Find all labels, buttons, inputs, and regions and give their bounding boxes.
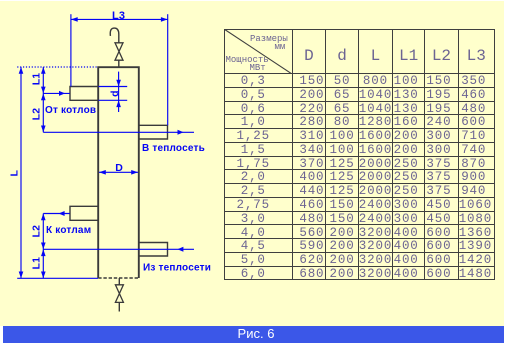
svg-text:d: d	[109, 90, 121, 97]
svg-text:В теплосеть: В теплосеть	[142, 143, 205, 154]
svg-text:От котлов: От котлов	[45, 105, 96, 116]
svg-text:L3: L3	[112, 10, 125, 22]
svg-text:К котлам: К котлам	[46, 225, 91, 236]
svg-text:L1: L1	[30, 73, 42, 86]
svg-text:Из теплосети: Из теплосети	[143, 263, 211, 274]
svg-text:L: L	[9, 170, 21, 177]
svg-text:L2: L2	[31, 225, 43, 238]
svg-text:D: D	[115, 162, 123, 174]
svg-text:L1: L1	[31, 257, 43, 270]
svg-text:L2: L2	[31, 108, 43, 121]
